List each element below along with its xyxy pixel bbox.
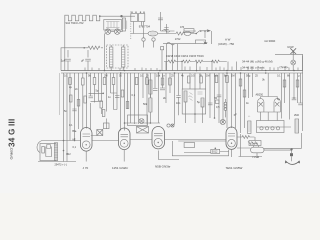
wire comb left end down (64, 17, 66, 71)
svg-text:34-44 (M) u.(M) g 46 (M): 34-44 (M) u.(M) g 46 (M) (242, 60, 273, 64)
drop wires tube1 region (83, 73, 102, 129)
UKW series symbol (291, 54, 296, 70)
resistor Rb7 (126, 102, 129, 109)
capacitor Ca (61, 50, 71, 71)
svg-text:10n: 10n (176, 101, 181, 105)
wire tuning box to IF filter (131, 33, 149, 35)
resistor Rd1 (239, 79, 242, 86)
wire down from tube3 (172, 141, 228, 156)
switch wave row3 (167, 42, 175, 45)
wire UKW to right rail (275, 54, 303, 70)
small box left of chain (215, 98, 220, 104)
box row3 (196, 40, 206, 44)
svg-text:50µ: 50µ (246, 74, 251, 78)
small capacitors above IF line (158, 12, 169, 34)
main bus lower (61, 72, 303, 74)
svg-text:↓↓: ↓↓ (248, 115, 251, 118)
junction box row4 (161, 47, 164, 50)
rectifier loop 1 (258, 99, 264, 112)
resistor Rc6 (200, 76, 203, 83)
wires into cap box (239, 133, 302, 157)
oscillator coil box L1 (131, 14, 138, 22)
svg-text:35a: 35a (72, 129, 77, 133)
input block box (61, 48, 103, 71)
svg-text:7E61 GN5W: 7E61 GN5W (226, 166, 243, 170)
resistor Rb8 (135, 78, 138, 85)
svg-text:2M: 2M (104, 74, 108, 78)
resistor left Ra2 (77, 100, 80, 107)
svg-text:Graetz: Graetz (9, 147, 14, 159)
svg-text:µF: µF (81, 59, 84, 63)
svg-text:UKW: UKW (287, 45, 294, 49)
winding W2 (122, 47, 125, 67)
resistor Rc1 (161, 78, 164, 85)
svg-text:1151 GN2br: 1151 GN2br (112, 166, 128, 170)
resistor Rb9 (146, 78, 149, 85)
mechanical link dashed (130, 12, 132, 41)
drop wires pot region (135, 73, 151, 125)
svg-text:N5B GN3br: N5B GN3br (155, 164, 171, 168)
svg-text:944 7904 L702: 944 7904 L702 (66, 21, 84, 25)
svg-text:3N2: 3N2 (66, 152, 71, 156)
resistor Rb2 (93, 78, 96, 85)
svg-text:µF: µF (234, 113, 237, 117)
tube V3 (152, 127, 165, 149)
resistor Rc4 (226, 76, 229, 83)
svg-text:0,1: 0,1 (69, 123, 73, 127)
svg-text:2µF: 2µF (61, 59, 66, 63)
vertical from tuning box (104, 34, 106, 71)
resistor R2 zigzag (176, 32, 184, 35)
drop wires tube2 region (111, 73, 131, 131)
resistor Rc3 (215, 76, 218, 83)
wire between trimmers (108, 29, 123, 32)
drop wires right of box (190, 73, 223, 123)
svg-text:0,1: 0,1 (73, 145, 77, 149)
resistor Rb4b (103, 78, 106, 85)
resistor left Ra1 (69, 95, 72, 102)
drop wires group left (64, 73, 79, 162)
ground chassis symbol (285, 156, 300, 164)
tube V1 (81, 128, 93, 152)
arrow head switch (204, 41, 208, 44)
electrolytic chain (224, 99, 227, 117)
svg-text:mit 300Ω: mit 300Ω (264, 39, 275, 43)
resistor Rd3 (283, 80, 286, 87)
winding W1 (110, 47, 113, 67)
svg-text:978 7704: 978 7704 (139, 25, 151, 29)
loop under box (251, 147, 264, 153)
svg-text:2M2: 2M2 (294, 113, 300, 117)
right drops (282, 73, 301, 120)
coupling box (184, 143, 194, 148)
resistor Rc5 (187, 76, 190, 83)
wire to switch arm (161, 31, 209, 34)
dial scale inner (106, 22, 120, 28)
junction dot (99, 15, 101, 17)
main bus upper (61, 70, 303, 72)
svg-text:34-46 (M) u Punkt: 34-46 (M) u Punkt (242, 65, 265, 69)
winding in box (184, 91, 187, 102)
wire comb to tuning box (100, 15, 135, 16)
tuning gang box (104, 20, 122, 31)
svg-text:(7µ44)+: (7µ44)+ (280, 65, 290, 69)
svg-text:AB250: AB250 (256, 94, 264, 97)
resistor Rc2 (169, 78, 172, 85)
trimmer capacitor C2 (115, 29, 121, 35)
drop wires center (155, 73, 183, 125)
loops top wires (237, 73, 291, 148)
resistor Rb6 (121, 90, 124, 97)
svg-text:1M: 1M (206, 74, 210, 78)
small box top (103, 123, 109, 129)
short horizontals (89, 93, 138, 123)
resistor Rb5 (112, 78, 115, 85)
dial cord comb (band indicator) (65, 15, 100, 21)
resistor right of tube4 (238, 136, 259, 145)
svg-text:(UKW) - 750: (UKW) - 750 (218, 42, 234, 46)
switch line row3 (163, 43, 207, 45)
filter oval F2 (184, 32, 191, 36)
IF transformer windings left (149, 80, 152, 94)
resistor Rb3 (100, 101, 103, 108)
capacitor c3 (153, 88, 165, 90)
junction circles above tube3 right (167, 124, 174, 127)
svg-text:1M: 1M (231, 74, 235, 78)
ratio detector box (182, 89, 206, 114)
junction dot (195, 33, 197, 35)
junction dots band (86, 72, 88, 74)
capacitor band c1 (89, 96, 94, 98)
bottom rail left (38, 161, 76, 163)
bottom loop wires (159, 151, 229, 160)
svg-text:0,1: 0,1 (140, 74, 144, 78)
svg-text:0,5: 0,5 (216, 105, 220, 109)
svg-text:34 G III: 34 G III (8, 119, 17, 147)
capacitor left ca (72, 109, 76, 111)
coupling box X right of tube1 (91, 130, 103, 136)
line tube3 to tube4 lower (178, 140, 226, 142)
output transformer winding (54, 143, 57, 161)
resistor Rb1 (82, 78, 85, 85)
curl wire into speaker (37, 141, 42, 153)
AGC line with resistors (164, 60, 227, 63)
faint extra vertical (59, 73, 61, 115)
choke winding right (295, 119, 299, 133)
capacitor c3b (176, 89, 180, 115)
terminal strip box (257, 121, 285, 133)
svg-text:470: 470 (180, 26, 185, 29)
svg-text:29473 + (-): 29473 + (-) (55, 163, 67, 166)
oscillator coil box L2 (139, 14, 145, 22)
short link (91, 101, 103, 114)
speaker frame (40, 144, 56, 161)
feedback box 5012 (211, 149, 220, 153)
tone network box (128, 115, 148, 126)
svg-text:0,5: 0,5 (191, 74, 195, 78)
trimmer capacitor C1 (105, 29, 111, 35)
resistor Rd4 (296, 80, 299, 87)
capacitor c4 (208, 95, 221, 105)
svg-text:5012: 5012 (212, 150, 218, 154)
rectifier loop 2 (274, 99, 280, 112)
box 470 row1 (180, 26, 194, 32)
svg-text:10k: 10k (156, 74, 161, 78)
switch wave row1 (162, 30, 170, 33)
jack K (152, 38, 155, 48)
winding in box 2 (201, 98, 204, 107)
resistor Rb4 (102, 110, 105, 117)
resistor Ra3 (84, 96, 87, 103)
switch drop wires (162, 31, 212, 71)
terminal dots above coils (131, 12, 132, 13)
cathode stubs below tubes (86, 149, 231, 161)
resistor left Ra0 (69, 78, 72, 85)
volume pot with switch (137, 127, 149, 134)
winding leads (111, 45, 123, 71)
wire (158, 33, 176, 35)
arrow head antenna pointer (207, 29, 211, 32)
lamp circle (220, 119, 225, 124)
wires into tube4 (227, 73, 236, 128)
svg-text:J 70: J 70 (83, 166, 89, 170)
dot above 5012 (215, 148, 217, 150)
tube V2 (119, 128, 131, 150)
svg-text:0,1: 0,1 (277, 74, 281, 78)
jack M (142, 22, 145, 48)
title Graetz 34 G III rotated left margin (8, 119, 17, 160)
capacitor band c2 (115, 96, 120, 98)
resistor Rd2 (243, 90, 246, 97)
svg-text:0,1: 0,1 (132, 93, 136, 97)
antenna coil unit dashed box (107, 45, 129, 68)
svg-text:0,1: 0,1 (64, 74, 68, 78)
svg-text:CW18 CF13 CW12 CW15 TW16: CW18 CF13 CW12 CW15 TW16 (166, 54, 204, 58)
svg-text:50k: 50k (143, 102, 148, 106)
dots on bus (104, 70, 106, 72)
right section drops (241, 73, 253, 133)
junction dot (63, 150, 65, 152)
resistor R1 zigzag on box top (88, 46, 100, 49)
box inner marks (190, 92, 203, 101)
IF filter oval F1 (148, 31, 158, 36)
tube V4 (226, 127, 237, 149)
svg-text:0,2: 0,2 (214, 74, 218, 78)
svg-text:1702: 1702 (175, 38, 181, 41)
right rail (302, 56, 304, 132)
oscillator winding vertical (122, 18, 127, 31)
heater line left (42, 140, 226, 141)
choke winding left (248, 121, 251, 134)
capacitor Cb (81, 50, 91, 71)
cap box bottom right (249, 141, 261, 146)
stubs above bus (85, 67, 298, 71)
UKW dipole connector X (287, 45, 296, 54)
AGC stubs (166, 62, 236, 71)
AGC dots (181, 61, 182, 62)
capacitor right (292, 98, 303, 105)
